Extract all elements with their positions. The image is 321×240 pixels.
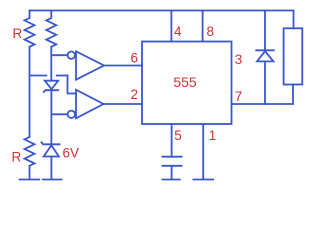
ground (zener string) [43, 179, 62, 181]
wire: divider tap left segment (hops over zener line) [30, 75, 47, 77]
wire: pin 4 to +V rail [170, 11, 172, 42]
ground (pin 1) [193, 179, 213, 181]
wire: +V top rail [30, 10, 294, 12]
svg-text:3: 3 [235, 52, 243, 67]
ground (left divider) [20, 179, 40, 181]
zener diode D2 (6V) cathode bar [42, 142, 60, 144]
wire: reference tap to comparator U1 input [51, 54, 67, 56]
svg-text:2: 2 [131, 87, 139, 102]
wire: diode D3 anode down to pin 7 wire [264, 61, 266, 104]
comparator U2 [76, 90, 104, 119]
svg-text:1: 1 [209, 128, 217, 143]
wire: left rail middle [29, 47, 31, 137]
svg-text:7: 7 [235, 89, 243, 104]
wire: divider tap right segment to jog [57, 75, 68, 77]
resistor R2 (second from Vcc) [46, 11, 56, 47]
svg-text:555: 555 [173, 74, 197, 90]
comparator U1 input bubble [68, 52, 75, 59]
svg-text:8: 8 [207, 24, 215, 39]
diode D3 (flyback, pointing up) [257, 51, 273, 61]
svg-text:R: R [12, 150, 22, 165]
comparator U2 input bubble [68, 111, 75, 118]
ground (capacitor C1) [163, 179, 180, 181]
wire: zener D2 to ground [50, 157, 52, 179]
svg-text:5: 5 [174, 128, 182, 143]
wire: capacitor C1 to ground [171, 166, 173, 179]
wire: zener string upper segment [50, 47, 52, 81]
comparator U1 [76, 51, 104, 79]
wire: zener string middle segment [50, 90, 52, 144]
wire: jog down to comparator U2 input [68, 76, 77, 94]
svg-text:4: 4 [174, 24, 182, 39]
svg-text:6: 6 [131, 51, 139, 66]
svg-text:R: R [13, 26, 23, 41]
wire: pin 1 to ground [202, 124, 204, 179]
wire: U2 output to 555 pin 2 [104, 103, 143, 105]
zener diode D1 [45, 81, 58, 90]
capacitor C1 bottom plate [163, 165, 182, 167]
wire: pin 8 to +V rail [202, 11, 204, 42]
wire: +V rail to diode D3 [264, 11, 266, 51]
wire: pin 5 to capacitor C1 [171, 124, 173, 157]
wire: zener mid tap to U2 bubble [51, 113, 67, 115]
wire: pin 7 to relay bottom [232, 85, 294, 105]
diode D3 cathode bar [256, 49, 274, 51]
zener D1 cathode bar [44, 90, 58, 92]
capacitor C1 top plate [163, 156, 182, 158]
wire: +V rail right end down to relay top [293, 11, 295, 29]
zener diode D2 (6V) [44, 145, 59, 156]
resistor R3 (lower left) [25, 137, 35, 179]
svg-text:6V: 6V [63, 146, 80, 161]
wire: U1 output to 555 pin 6 [104, 65, 142, 67]
IC U3 555 timer body [142, 42, 232, 125]
resistor R1 (upper left) [25, 11, 35, 47]
relay coil / load RL1 [284, 28, 303, 84]
